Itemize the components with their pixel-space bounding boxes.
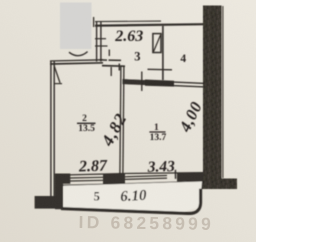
room2 window glazing lines: [70, 176, 103, 179]
entrance door jamb tick lower: [95, 45, 108, 47]
wall segment right of window: [177, 173, 203, 182]
balcony outer line with rounded corner: [61, 189, 201, 214]
room 2 top wall double: [50, 60, 103, 61]
grey censor block: [60, 3, 92, 50]
balcony pier block: [55, 174, 63, 210]
window band top line: [70, 173, 203, 175]
label room 2 underline: [77, 122, 96, 124]
shaft wall right edge line: [222, 6, 224, 178]
room1 window glazing lines: [125, 176, 167, 177]
room 1 top wall dark fill mid: [145, 80, 174, 87]
hall bottom thin line: [100, 59, 108, 61]
hall left wall double line: [96, 21, 98, 62]
small door mark: [108, 50, 110, 57]
room 1 top wall dark fill left: [123, 79, 146, 84]
room2 door leaf: [54, 66, 60, 83]
corner tick top-left: [93, 17, 95, 27]
divider wall rooms 1-2 double: [120, 67, 121, 175]
top wall thick line: [95, 24, 205, 26]
shaft thick wall vertical: [203, 6, 222, 180]
divider wall rooms 3-4: [162, 26, 164, 80]
vestibule door tick: [110, 67, 112, 76]
ventilation shaft diagonal: [154, 35, 161, 52]
entrance door jamb tick upper: [95, 38, 106, 40]
window jamb tick: [174, 170, 176, 179]
top wall thin upper line: [95, 20, 161, 23]
room 2 left wall double: [50, 61, 52, 196]
door jamb tick hall: [148, 68, 173, 71]
hall bottom lower segment: [102, 65, 125, 68]
label room 1 underline: [149, 131, 165, 133]
balcony floor light area: [64, 182, 203, 212]
wall pier between windows: [103, 173, 125, 185]
balcony pier top bar: [63, 174, 70, 184]
room 1 top wall lines: [123, 80, 206, 84]
paper grain overlay: [0, 0, 256, 242]
balcony pier foot: [35, 196, 55, 209]
shaft thick wall horizontal bar: [186, 179, 237, 190]
door jamb tick room1: [141, 72, 143, 92]
door leaf foot tick: [55, 83, 63, 85]
window band bottom line: [63, 181, 203, 185]
ventilation shaft box: [153, 34, 161, 53]
entrance door swing arc: [69, 52, 88, 56]
paper background: [0, 0, 256, 242]
wall end cap: [118, 64, 120, 71]
